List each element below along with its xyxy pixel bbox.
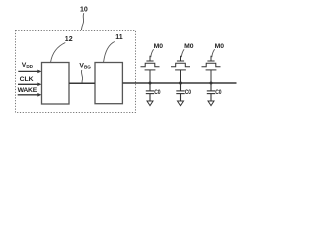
wire block11 output rail xyxy=(122,82,236,84)
leader for VBG xyxy=(81,70,82,83)
leader for 11 xyxy=(104,42,115,63)
block 11 (right box) xyxy=(95,63,122,104)
capacitor C0 (second) xyxy=(176,83,184,101)
svg-text:VBG: VBG xyxy=(79,62,91,69)
node dot second column xyxy=(179,82,182,85)
svg-text:C0: C0 xyxy=(215,89,222,96)
dashed box (device 10 outline) xyxy=(16,31,136,113)
transistor M0 (first) xyxy=(141,56,160,83)
VDD input arrow xyxy=(18,70,41,74)
WAKE input arrow xyxy=(18,93,42,97)
svg-text:WAKE: WAKE xyxy=(18,87,38,94)
ground (second) xyxy=(178,101,184,106)
CLK input arrow xyxy=(18,83,42,87)
svg-text:M0: M0 xyxy=(215,43,225,50)
transistor M0 (second) xyxy=(171,56,190,83)
leader for 12 xyxy=(51,43,66,63)
svg-text:10: 10 xyxy=(80,7,88,14)
svg-text:11: 11 xyxy=(115,34,123,41)
node dot third column xyxy=(210,82,213,85)
wire block12 to block11 (VBG net) xyxy=(69,82,95,84)
svg-text:CLK: CLK xyxy=(20,76,34,83)
svg-text:12: 12 xyxy=(65,36,73,43)
svg-text:C0: C0 xyxy=(185,89,192,96)
node dot first column xyxy=(149,82,152,85)
ground (third) xyxy=(208,101,214,106)
capacitor C0 (first) xyxy=(146,83,154,101)
leader for 10 xyxy=(81,13,83,30)
svg-text:C0: C0 xyxy=(154,89,161,96)
transistor M0 (third) xyxy=(202,56,221,83)
leader for third M0 xyxy=(212,49,215,57)
svg-text:M0: M0 xyxy=(154,43,164,50)
leader for first M0 xyxy=(151,49,154,57)
block 12 (left box) xyxy=(42,63,70,105)
ground (first) xyxy=(147,101,153,106)
svg-text:M0: M0 xyxy=(184,43,194,50)
capacitor C0 (third) xyxy=(207,83,215,101)
leader for second M0 xyxy=(181,49,184,57)
svg-text:VDD: VDD xyxy=(22,62,34,69)
